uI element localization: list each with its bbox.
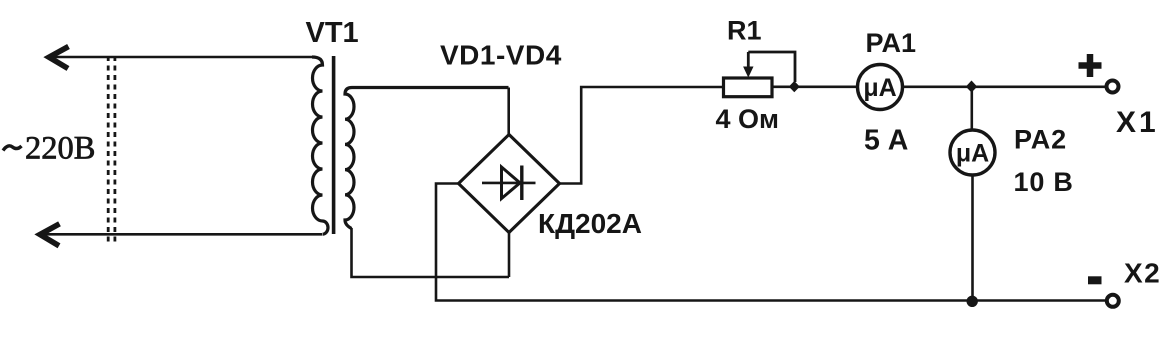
transformer VT1 secondary winding (345, 88, 509, 229)
svg-text:220В: 220В (25, 131, 95, 167)
svg-text:КД202А: КД202А (538, 208, 642, 239)
wire bottom mains lead (41, 233, 322, 236)
R1 wiper arrowhead (743, 67, 753, 78)
wire bridge left (minus) to bottom rail (436, 184, 1108, 301)
wire R1 to PA1 (772, 86, 857, 89)
diode symbol anode line (482, 182, 536, 185)
arrow bottom-left (40, 224, 60, 246)
terminal X2 (1107, 295, 1119, 307)
svg-text:μA: μA (956, 140, 989, 168)
voltmeter PA2 (950, 130, 995, 175)
wire junction down to PA2 (970, 87, 973, 130)
diode symbol triangle (502, 167, 521, 199)
junction node bottom rail (967, 296, 978, 307)
transformer T primary winding (312, 57, 328, 234)
wire bridge bottom feed (508, 232, 511, 277)
minus sign (1088, 276, 1102, 284)
dashed separator line 1 (107, 56, 110, 243)
junction node top rail (966, 81, 977, 93)
bridge rectifier VD1-VD4 diamond (459, 135, 560, 233)
svg-text:VT1: VT1 (306, 17, 359, 49)
transformer core (332, 56, 336, 234)
svg-text:VD1-VD4: VD1-VD4 (440, 40, 562, 71)
R1 wiper arm bracket (748, 52, 795, 82)
wire bridge right (plus) riser (560, 87, 724, 184)
tilde of mains label (3, 146, 22, 151)
svg-text:PA2: PA2 (1014, 125, 1067, 155)
diode symbol cathode bar (520, 166, 523, 201)
svg-text:X1: X1 (1116, 106, 1159, 139)
wire top mains lead (50, 56, 313, 59)
terminal X1 (1107, 81, 1119, 93)
resistor R1 body (724, 78, 773, 97)
wire PA2 down to bottom rail (971, 175, 974, 301)
plus sign (1079, 54, 1102, 77)
wire bridge top feed (507, 88, 510, 136)
svg-text:PA1: PA1 (866, 28, 917, 58)
junction node at R1 wiper (789, 81, 800, 92)
wire PA1 to X1 (903, 86, 1107, 89)
svg-text:10 В: 10 В (1014, 167, 1074, 197)
R1 wiper arrow shaft (747, 52, 750, 68)
ammeter PA1 (858, 65, 903, 110)
wire secondary bottom to bridge bottom (352, 228, 510, 277)
svg-text:4 Ом: 4 Ом (716, 104, 780, 134)
svg-text:R1: R1 (727, 16, 762, 46)
svg-text:μA: μA (863, 74, 896, 102)
svg-text:X2: X2 (1124, 258, 1161, 289)
arrow top-left (49, 47, 69, 69)
svg-text:5 А: 5 А (864, 125, 908, 157)
dashed separator line 2 (114, 56, 117, 243)
